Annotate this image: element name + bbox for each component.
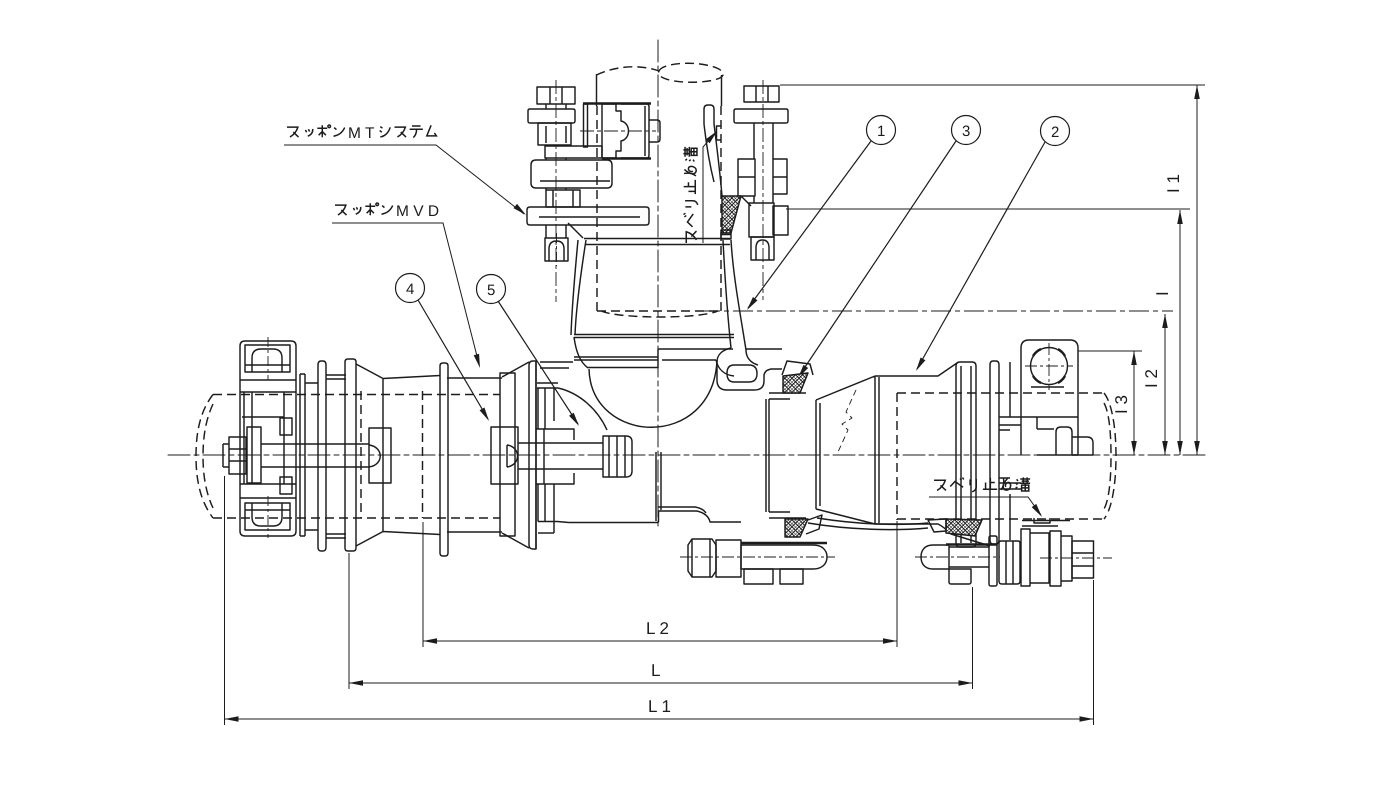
MT body [875,363,957,376]
wedge retainer top [782,361,813,375]
pipe groove notch [1034,518,1050,523]
follower top bolt [245,345,290,372]
tee barrel bottom [538,522,659,523]
balloon 4 [396,274,489,420]
branch right wall swoop [723,240,746,350]
top coupling right bolt [744,86,779,102]
gasket right bottom [785,519,808,537]
left T-bolt head [223,444,229,467]
svg-text:M V D: M V D [396,203,439,220]
pipe groove notch top [717,126,722,140]
dimension L2 [423,521,897,647]
svg-text:4: 4 [406,281,414,298]
left bell hub [537,383,607,430]
bracket foot [1056,427,1072,455]
tee barrel top left [540,362,573,368]
gasket right top [783,373,808,393]
dimension I3 [1133,351,1135,455]
MT gland [999,362,1021,540]
balloon 1 [748,116,896,309]
top bolt lower foot [545,238,568,261]
left follower plate [240,341,296,536]
svg-text:L: L [651,661,660,680]
extension line I3 [1078,350,1142,352]
dimension labels [646,174,1183,716]
MECHANICAL BODY [196,63,1116,586]
svg-text:I 1: I 1 [1164,174,1183,193]
follower bottom bolt [245,503,290,530]
right coupling mid T-bolt [921,545,949,569]
left T-bolt end block [369,428,391,483]
extension line I2 [700,310,1173,312]
svg-text:2: 2 [1051,124,1059,141]
MT plate 2 [990,361,999,544]
clamp bracket [1021,340,1078,455]
MVD stack 2 [500,373,515,536]
right socket bell [766,399,790,512]
crotch bore arc [589,361,717,427]
balloon 2 [917,117,1070,370]
castle nut [603,436,632,477]
svg-text:M T: M T [348,125,375,142]
dimension L1 [225,476,1094,725]
branch seal ring [574,335,734,338]
label slip-stop groove (bottom right) [929,477,1044,518]
svg-text:I 2: I 2 [1142,369,1161,388]
main pipe centerline [168,454,1207,456]
top coupling left plates [545,146,602,158]
vertical pipe hidden outline [597,74,722,106]
right T-bolt plates [1021,529,1049,586]
branch left wall [574,337,588,368]
MVD stack 1 plates [300,374,305,536]
MT coupling cone [816,376,879,524]
left T-bolt washer [247,427,261,483]
top coupling left bolt [537,87,575,104]
svg-text:I: I [1153,291,1172,296]
claw root [546,223,583,238]
right T-bolt hex [1072,541,1094,578]
svg-text:I 3: I 3 [1112,395,1131,414]
saddle block [583,102,651,105]
label suppon MVD [332,203,483,369]
mid bolt washer [989,536,997,586]
stack2 T-bolt shaft [518,443,603,469]
mid bolt castle nut [999,541,1020,584]
left T-bolt shaft [261,444,369,467]
svg-text:1: 1 [877,123,885,140]
left claw arm [571,240,586,335]
coupling press ring bottom [1022,521,1070,527]
svg-text:L 1: L 1 [648,697,671,716]
branch pipe centerline [657,40,659,530]
balloon 3 [799,116,981,377]
branch internal shoulder [574,349,733,368]
arrowheads for dimensions [1194,85,1200,99]
dimension I [1179,210,1181,455]
section break squiggle [838,390,856,452]
right coupling bottom gasket [946,519,982,536]
sleeve cone [356,364,440,546]
svg-text:3: 3 [962,123,970,140]
bottom claw arm to right [808,518,928,530]
svg-text:5: 5 [487,282,495,299]
label slip-stop groove (vertical, top) [683,129,719,243]
label suppon MT system [284,125,528,217]
dimension group [225,85,1206,725]
bottom center T-bolt [688,539,716,577]
left pipe hidden outline [196,391,500,518]
stack2 T-bolt block [491,427,518,484]
right claw hook [704,105,714,124]
top wedge gasket [722,196,741,233]
extension line I [786,208,1190,210]
balloon 5 [477,275,579,425]
MT tall plate [956,362,976,547]
extension line top I1 [780,84,1205,86]
dimension I2 [1164,314,1166,455]
right pipe hidden outline [897,393,1116,520]
dimension L [349,553,973,689]
top wide plate [527,207,649,225]
dimension I1 [1196,85,1198,455]
svg-text:L 2: L 2 [646,619,669,638]
